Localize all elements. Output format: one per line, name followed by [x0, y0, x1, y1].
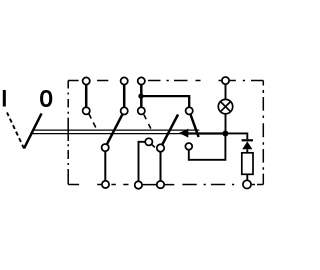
wire bottom solid segment B2-B3: [134, 184, 174, 186]
actuation arrowhead: [179, 129, 188, 138]
contact tail C1 (dashed): [89, 114, 97, 130]
switch arm C4 lamp feed: [189, 111, 198, 137]
wire bar T1-C1: [85, 81, 88, 111]
housing border bottom: [68, 184, 263, 186]
terminal B1: [102, 181, 109, 188]
junction dot D1: [138, 93, 143, 98]
resistor R1 body: [242, 153, 253, 175]
svg-text:0: 0: [40, 85, 53, 111]
wire bar T2-C2: [123, 81, 126, 111]
contact tail C5: [151, 144, 155, 147]
lamp cross stroke 2: [220, 102, 230, 112]
lamp cross stroke 1: [220, 102, 230, 112]
contact C4: [186, 107, 193, 114]
wire C5-B2: [139, 142, 149, 185]
wire C8 to lamp junction: [189, 134, 226, 160]
housing border top: [68, 80, 263, 82]
diode cathode bar: [242, 139, 253, 141]
terminal T2: [121, 77, 128, 84]
wire D2 to diode branch: [225, 133, 247, 139]
contact tail C3 (dashed): [144, 115, 152, 130]
switch arm C6 open: [161, 115, 179, 149]
contact C1: [83, 107, 90, 114]
wire resistor to B4: [246, 174, 248, 180]
wire lamp to D2: [225, 114, 227, 134]
terminal T3: [138, 77, 145, 84]
contact C8 lamp pivot: [185, 143, 192, 150]
switch lever dashed (position I): [7, 113, 24, 149]
wire bar T3-C3: [140, 81, 143, 111]
actuation link line: [186, 132, 225, 134]
contact C6: [157, 144, 164, 151]
contact C2: [121, 107, 128, 114]
mechanical bus upper line: [33, 129, 199, 131]
terminal T4: [222, 77, 229, 84]
wire C6-B3: [160, 148, 162, 185]
wire C7-B1: [104, 148, 106, 185]
lamp L1: [218, 99, 232, 113]
terminal B2: [135, 181, 142, 188]
wire D1 to C4 feed: [141, 96, 189, 111]
diode triangle: [242, 141, 252, 149]
mechanical bus lower line: [32, 133, 189, 135]
terminal T1: [83, 77, 90, 84]
housing border left: [67, 81, 69, 185]
contact C7: [102, 144, 109, 151]
switch arm C7-C2: [105, 111, 124, 148]
terminal B4: [243, 180, 251, 188]
housing border right: [262, 81, 264, 185]
contact C5: [145, 138, 152, 145]
junction dot D2: [222, 131, 228, 137]
contact C3: [138, 107, 145, 114]
svg-text:I: I: [1, 86, 7, 111]
switch lever solid (position 0): [24, 114, 42, 149]
terminal B3: [157, 181, 164, 188]
wire T4 to lamp: [225, 81, 227, 100]
wire diode to resistor: [246, 149, 248, 153]
